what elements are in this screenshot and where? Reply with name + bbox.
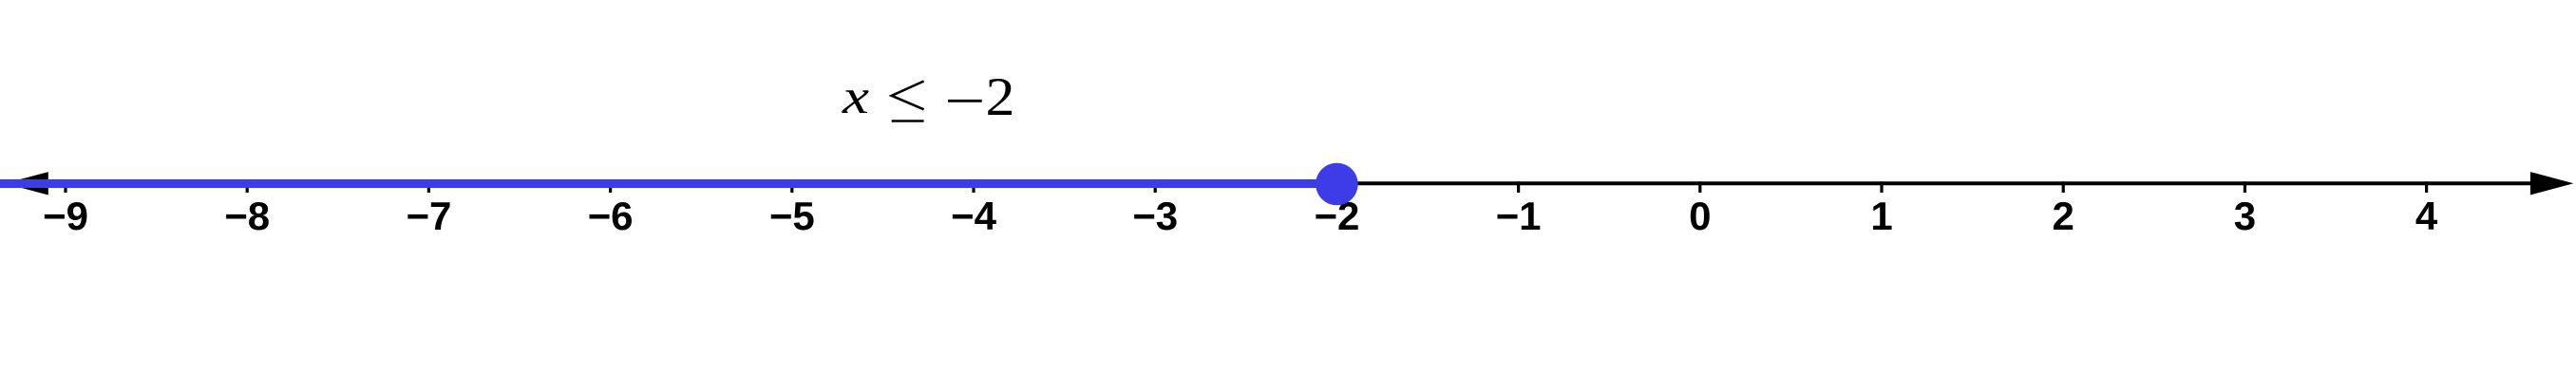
svg-text:1: 1 [1870, 194, 1892, 238]
svg-text:−8: −8 [224, 194, 270, 238]
svg-text:−9: −9 [43, 194, 88, 238]
tick 1 [1880, 181, 1883, 193]
svg-text:0: 0 [1689, 194, 1711, 238]
tick -1 [1517, 181, 1520, 193]
tick -8 [246, 181, 249, 193]
tick -9 [64, 181, 66, 193]
left arrowhead [5, 172, 48, 195]
inequality title: minus sign [948, 100, 982, 102]
svg-text:3: 3 [2234, 194, 2256, 238]
svg-text:−1: −1 [1496, 194, 1542, 238]
tick 3 [2244, 181, 2246, 193]
right arrowhead [2530, 172, 2574, 195]
svg-text:−7: −7 [406, 194, 451, 238]
tick -7 [427, 181, 430, 193]
tick 4 [2425, 181, 2428, 193]
tick -3 [1154, 181, 1157, 193]
inequality title: less-or-equal symbol [892, 82, 924, 110]
tick -5 [790, 181, 793, 193]
tick 2 [2062, 181, 2065, 193]
svg-text:−4: −4 [951, 194, 997, 238]
svg-text:2: 2 [2053, 194, 2074, 238]
tick 0 [1698, 181, 1701, 193]
svg-text:−5: −5 [769, 194, 815, 238]
tick -4 [972, 181, 975, 193]
number line axis [19, 181, 2560, 185]
tick -6 [609, 181, 612, 193]
svg-text:−6: −6 [588, 194, 634, 238]
svg-text:x: x [842, 70, 869, 124]
svg-text:−3: −3 [1132, 194, 1178, 238]
closed endpoint dot at -2 [1316, 163, 1358, 206]
tick -2 [1335, 181, 1338, 193]
blue ray for x <= -2 [0, 179, 1336, 188]
svg-text:2: 2 [986, 67, 1015, 127]
svg-text:4: 4 [2415, 194, 2438, 238]
